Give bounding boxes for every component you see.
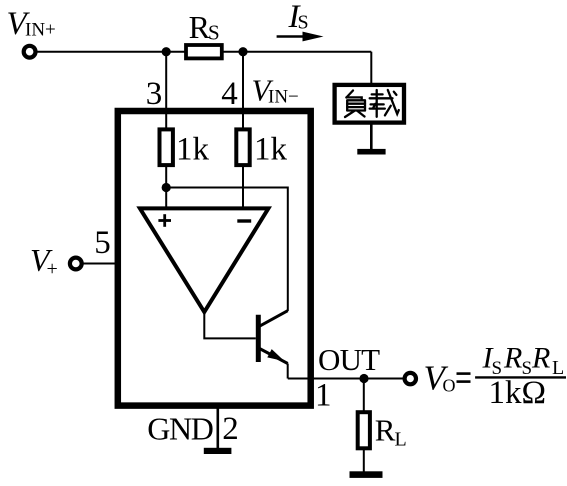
wire: pin 4 vertical bbox=[242, 52, 244, 129]
svg-text:R: R bbox=[531, 341, 550, 374]
svg-text:IN+: IN+ bbox=[25, 20, 56, 41]
wire: V+ to IC bbox=[84, 263, 118, 265]
terminal V+ bbox=[70, 258, 82, 270]
wire: OUT rail bbox=[288, 378, 405, 380]
wire: drop to load box bbox=[370, 52, 372, 83]
svg-text:S: S bbox=[298, 12, 309, 34]
wire: GND pin bbox=[217, 406, 220, 449]
svg-text:2: 2 bbox=[222, 411, 239, 447]
svg-text:R: R bbox=[375, 412, 396, 447]
svg-text:IN−: IN− bbox=[268, 86, 299, 107]
svg-text:L: L bbox=[552, 357, 564, 379]
transistor Q1 collector bbox=[260, 311, 288, 327]
resistor 1k (right) body bbox=[236, 129, 249, 165]
load box 负载 bbox=[335, 85, 404, 123]
node: junction left of RS bbox=[162, 47, 171, 56]
svg-text:S: S bbox=[208, 21, 220, 45]
resistor RS body bbox=[186, 45, 222, 58]
glyph: 载 (hand drawn) bbox=[370, 90, 399, 117]
terminal VIN+ bbox=[24, 46, 36, 58]
wire: op-amp output to transistor base bbox=[204, 312, 256, 338]
ground under load bbox=[357, 149, 385, 155]
terminal VO bbox=[405, 373, 416, 384]
wire: right 1k to minus input bbox=[242, 165, 244, 208]
svg-text:1k: 1k bbox=[254, 131, 288, 167]
svg-text:1: 1 bbox=[315, 378, 332, 414]
svg-text:1kΩ: 1kΩ bbox=[489, 375, 547, 411]
wire: OUT node to RL bbox=[363, 379, 365, 412]
wire: left 1k to plus node bbox=[165, 165, 167, 208]
label - input bbox=[237, 219, 251, 222]
node: OUT junction bbox=[359, 374, 368, 383]
label + input bbox=[158, 219, 171, 222]
transistor Q1 emitter bbox=[260, 349, 288, 364]
fraction bar bbox=[475, 376, 566, 378]
svg-text:1k: 1k bbox=[176, 131, 210, 167]
svg-text:OUT: OUT bbox=[318, 342, 380, 377]
ground under RL bbox=[350, 471, 383, 478]
wire: feedback from plus node to collector bbox=[166, 188, 288, 312]
svg-text:5: 5 bbox=[94, 225, 111, 261]
IC box U1 bbox=[118, 111, 311, 406]
wire: top rail from VIN+ to load branch bbox=[38, 51, 372, 53]
wire: load to ground bbox=[370, 124, 373, 150]
node: junction right of RS bbox=[238, 47, 247, 56]
transistor Q1 base bar bbox=[256, 315, 261, 362]
resistor 1k (left) body bbox=[160, 129, 173, 165]
svg-text:R: R bbox=[503, 341, 522, 374]
svg-text:3: 3 bbox=[146, 76, 163, 112]
svg-text:4: 4 bbox=[221, 76, 238, 112]
wire: RL to ground bbox=[363, 448, 365, 471]
svg-text:+: + bbox=[47, 258, 58, 280]
wire: pin 3 vertical bbox=[165, 52, 167, 129]
resistor RL body bbox=[358, 412, 370, 448]
transistor Q1 emitter arrow bbox=[267, 349, 284, 361]
arrow: IS current direction bbox=[277, 35, 308, 38]
svg-text:GND: GND bbox=[147, 410, 212, 446]
svg-text:O: O bbox=[443, 376, 456, 396]
wire: emitter down to OUT rail bbox=[287, 364, 289, 379]
svg-text:L: L bbox=[395, 429, 407, 451]
equals sign bbox=[457, 372, 471, 375]
ground under GND pin bbox=[204, 448, 232, 454]
glyph: 负 (hand drawn) bbox=[345, 91, 365, 118]
node: plus input junction bbox=[162, 183, 171, 192]
op-amp U1 triangle bbox=[140, 208, 269, 312]
